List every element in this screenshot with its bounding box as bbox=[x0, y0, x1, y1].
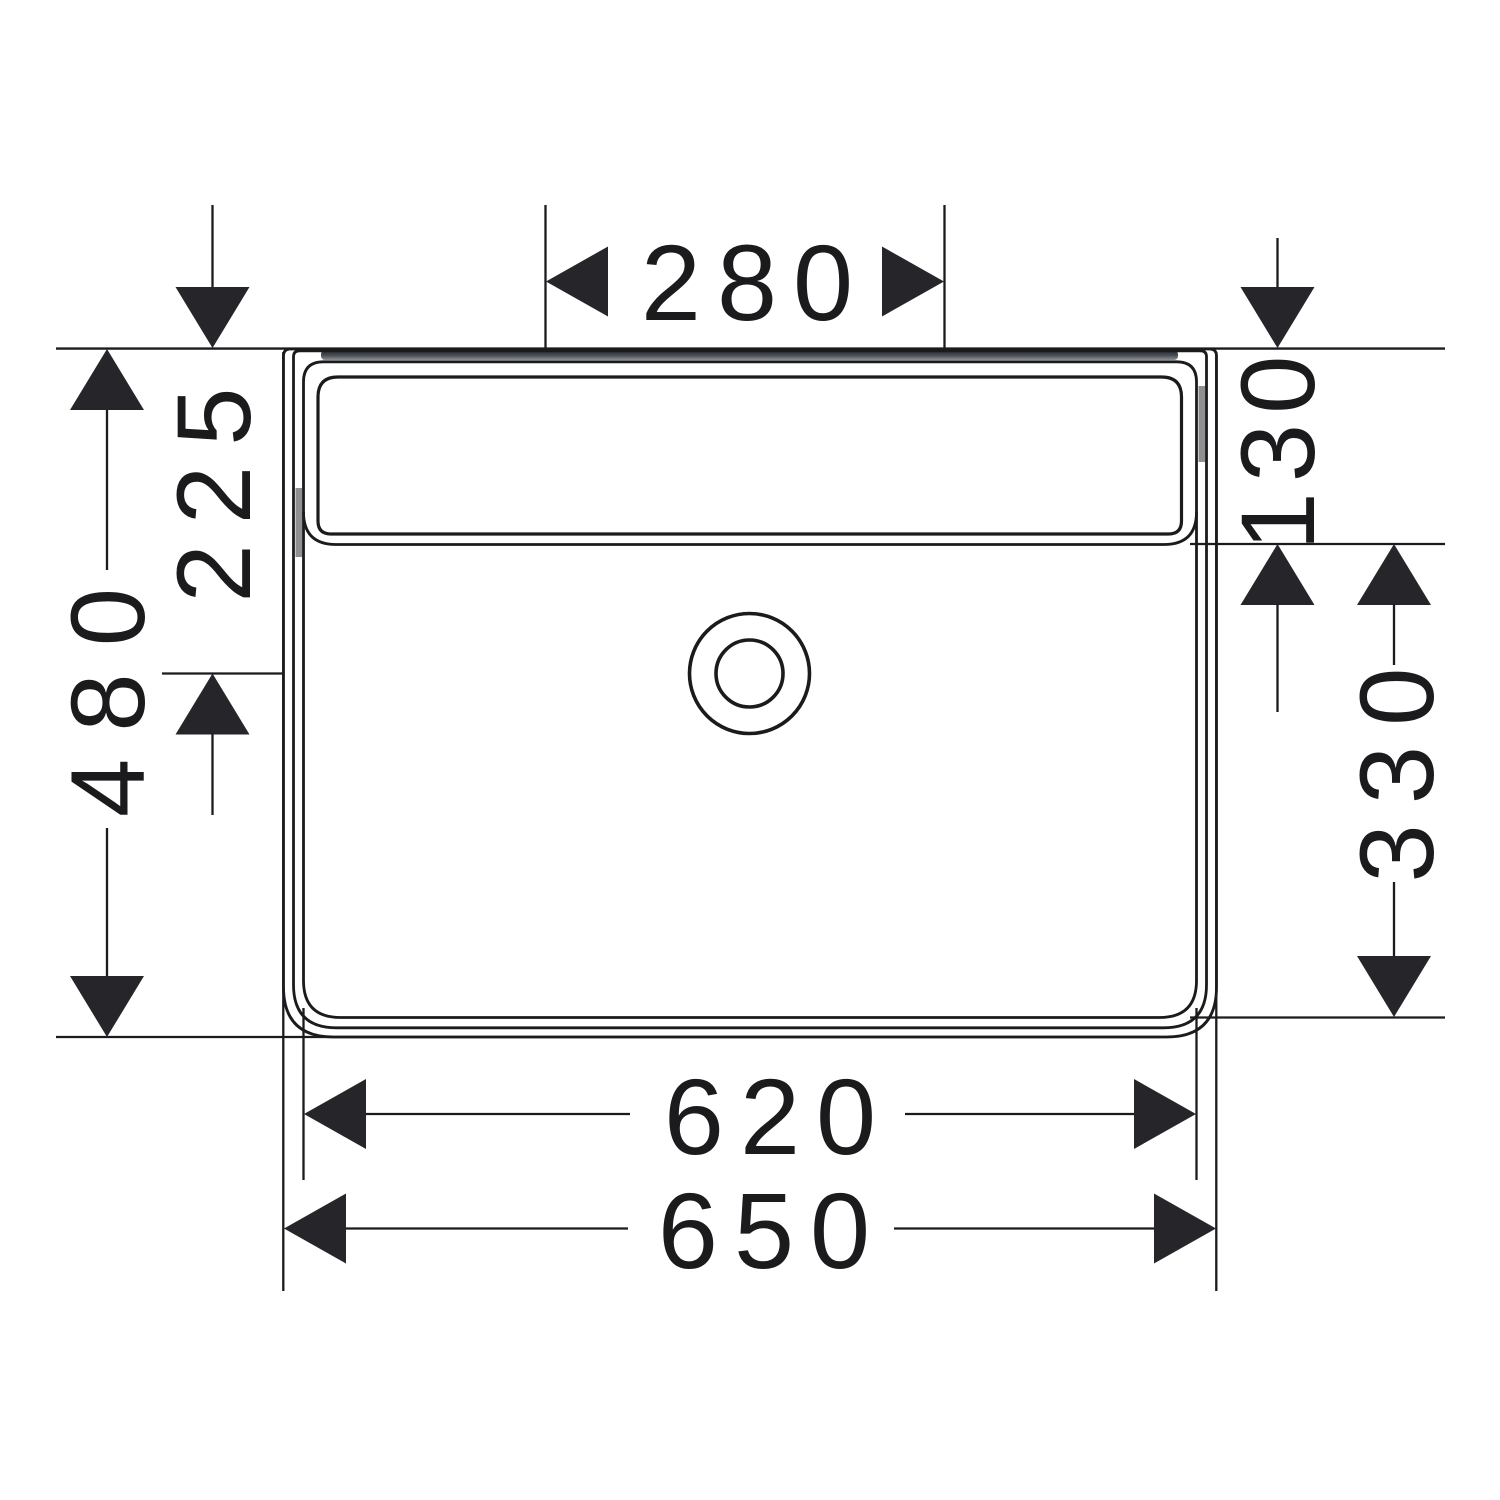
dim 130: upper line above wall bbox=[1276, 238, 1278, 288]
dim 620: line stubs bbox=[366, 1113, 630, 1115]
dim 650: line stubs bbox=[346, 1227, 628, 1229]
wire: bottom-left reference line (480 bottom) bbox=[56, 1036, 1160, 1038]
dim 330: lower segment bbox=[1393, 882, 1395, 958]
dim 130: top arrow (pointing down) bbox=[1241, 287, 1315, 348]
dim 225: upper line above wall bbox=[211, 205, 213, 288]
drain inner circle bbox=[716, 640, 783, 707]
dim 480: bottom arrow bbox=[70, 976, 144, 1037]
dim 480: dimension line segments bbox=[106, 408, 108, 570]
basin rim inner outline bbox=[294, 351, 1207, 1028]
dim 280: left arrow bbox=[546, 247, 608, 317]
dim 620: extension lines bbox=[302, 1008, 304, 1180]
dim 280: right arrow bbox=[882, 247, 944, 317]
basin outer outline 650x480 bbox=[284, 349, 1217, 1037]
dim 225: tick line bbox=[162, 672, 284, 674]
bowl inner outline with top divider edge bbox=[304, 362, 1197, 1018]
dim 650: extension lines bbox=[282, 352, 284, 1291]
dim 620: left arrow bbox=[304, 1079, 366, 1149]
dim 280: extension lines bbox=[544, 205, 546, 348]
dim 225: lower line below arrow bbox=[211, 734, 213, 816]
dim 130: lower line below arrow bbox=[1276, 604, 1278, 712]
dim 330: upper segment bbox=[1393, 604, 1395, 665]
bowl top divider edge bbox=[304, 512, 1197, 545]
dim 330: top arrow (pointing up) bbox=[1357, 544, 1431, 605]
dim 225: bottom arrow (pointing up) bbox=[176, 674, 250, 735]
shelf inner outline (tap platform) bbox=[318, 377, 1182, 534]
wire: bottom-right reference line (330 bottom) bbox=[1190, 1016, 1445, 1018]
dim 480: top arrow bbox=[70, 349, 144, 410]
gray shading strip left side bbox=[296, 488, 303, 557]
drain outer circle bbox=[690, 614, 810, 734]
svg-text:480: 480 bbox=[50, 561, 167, 817]
dim 225: top arrow (pointing down) bbox=[176, 287, 250, 348]
basin back rim dark bar bbox=[321, 350, 1178, 360]
dim 650: left arrow bbox=[284, 1194, 346, 1264]
svg-text:225: 225 bbox=[156, 367, 273, 602]
svg-text:620: 620 bbox=[664, 1056, 892, 1177]
dim 330: bottom arrow (pointing down) bbox=[1357, 956, 1431, 1017]
dim 650: right arrow bbox=[1154, 1194, 1216, 1264]
svg-text:280: 280 bbox=[641, 222, 869, 343]
dim 620: right arrow bbox=[1134, 1079, 1196, 1149]
svg-text:130: 130 bbox=[1220, 345, 1337, 550]
wire: right mid reference line (divider extension) bbox=[1190, 543, 1445, 545]
dim 130: bottom arrow (pointing up) bbox=[1241, 544, 1315, 605]
gray shading strip right side bbox=[1199, 386, 1206, 462]
svg-text:650: 650 bbox=[658, 1170, 886, 1291]
svg-text:330: 330 bbox=[1339, 647, 1456, 882]
wire: top wall reference line bbox=[56, 347, 1445, 349]
